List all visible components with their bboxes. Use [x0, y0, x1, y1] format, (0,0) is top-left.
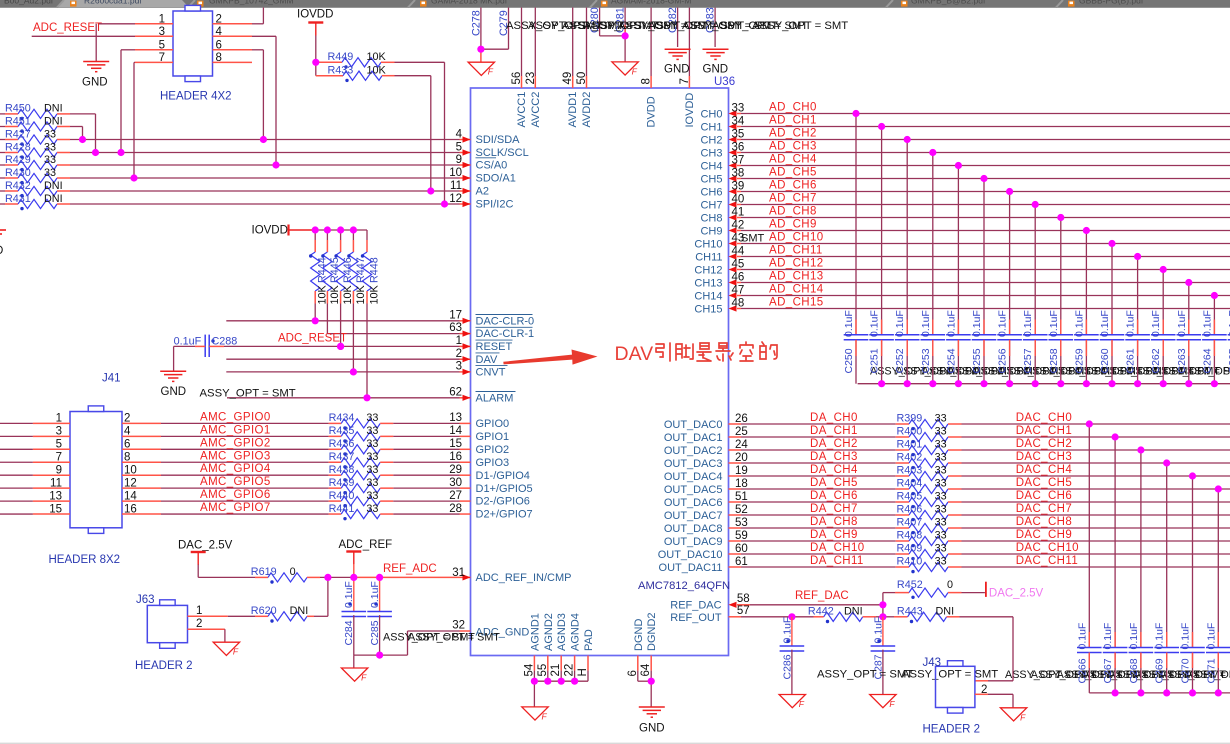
- resistor R432 DNI: [0, 190, 5, 192]
- svg-text:0.1uF: 0.1uF: [1022, 310, 1034, 337]
- svg-text:GND: GND: [664, 63, 690, 75]
- svg-text:DAC_CH0: DAC_CH0: [1016, 412, 1072, 424]
- svg-text:11: 11: [450, 180, 462, 192]
- svg-text:61: 61: [735, 556, 748, 568]
- capacitor C278 (off-top): [480, 8, 482, 50]
- svg-text:6: 6: [216, 39, 222, 51]
- svg-text:13: 13: [49, 490, 62, 502]
- ground GND (header pin1): [83, 61, 109, 63]
- junction AD_CH9/C259: [1083, 227, 1090, 234]
- svg-text:60: 60: [735, 543, 748, 555]
- header4x2 pin 3 stub: [135, 35, 173, 37]
- resistor R405 33: [896, 501, 909, 503]
- wire OUT_DAC5 row (pin 18): [729, 488, 742, 490]
- svg-text:33: 33: [935, 556, 947, 568]
- svg-text:14: 14: [124, 490, 137, 502]
- svg-text:GPIO2: GPIO2: [476, 444, 510, 456]
- svg-text:DNI: DNI: [44, 103, 63, 115]
- wire DAC_CH1 out: [962, 436, 1230, 438]
- capacitor C254 0.1uF: [957, 166, 959, 335]
- svg-text:0.1uF: 0.1uF: [1099, 310, 1111, 337]
- junction DAC_CH1/C267: [1112, 433, 1119, 440]
- svg-text:33: 33: [44, 141, 56, 153]
- svg-text:15: 15: [49, 503, 62, 515]
- wire R434 to chip pin 13: [393, 422, 459, 424]
- resistor R620 DNI: [255, 615, 268, 617]
- svg-text:GPIO3: GPIO3: [476, 457, 510, 469]
- svg-text:56: 56: [511, 72, 523, 85]
- svg-text:AMC_GPIO5: AMC_GPIO5: [200, 476, 271, 488]
- connector J41 HEADER 8X2: [70, 412, 122, 528]
- wire J41 pin 14 to R440: [122, 500, 161, 502]
- svg-text:C250: C250: [843, 348, 855, 373]
- resistor R452 0: [883, 592, 895, 594]
- resistor R449 10K: [316, 61, 342, 63]
- svg-text:HEADER 2: HEADER 2: [923, 724, 981, 736]
- svg-text:OUT_DAC2: OUT_DAC2: [664, 445, 723, 457]
- svg-text:F: F: [542, 711, 548, 721]
- svg-text:DA_CH0: DA_CH0: [810, 412, 858, 424]
- wire R448 to row: [366, 304, 368, 398]
- svg-text:CNVT: CNVT: [476, 367, 506, 379]
- svg-text:R427: R427: [5, 128, 31, 140]
- svg-text:63: 63: [449, 322, 462, 334]
- wire ALARM row (pin 62): [227, 397, 460, 399]
- svg-text:0.1uF: 0.1uF: [1076, 623, 1088, 650]
- svg-text:CH15: CH15: [694, 303, 722, 315]
- junction AD_CH4/C254: [955, 162, 962, 169]
- connector HEADER 4X2: [173, 11, 213, 76]
- svg-text:33: 33: [366, 464, 378, 476]
- svg-text:R435: R435: [329, 425, 355, 437]
- svg-text:23: 23: [525, 72, 537, 85]
- svg-text:33: 33: [935, 413, 947, 425]
- svg-text:10K: 10K: [367, 64, 387, 76]
- svg-text:CH2: CH2: [700, 134, 722, 146]
- wire AD_CH0 row (pin 33): [737, 113, 741, 115]
- wire J63 pin2 to frame ground: [188, 628, 225, 630]
- wire J41 pin 16 to R441: [122, 513, 161, 515]
- capacitor C270 0.1uF: [1192, 476, 1194, 648]
- svg-text:DAC_2.5V: DAC_2.5V: [178, 540, 233, 552]
- svg-text:R436: R436: [329, 438, 355, 450]
- wire R446 to row: [340, 304, 342, 347]
- svg-text:0.1uF: 0.1uF: [1154, 623, 1166, 650]
- svg-text:27: 27: [449, 490, 462, 502]
- svg-text:R444: R444: [317, 257, 329, 283]
- svg-text:0.1uF: 0.1uF: [1073, 310, 1085, 337]
- svg-text:59: 59: [735, 530, 748, 542]
- svg-text:2: 2: [124, 413, 130, 425]
- wire AD_CH6 row (pin 39): [737, 191, 741, 193]
- wire header pin7 down: [134, 61, 135, 63]
- resistor R429 33: [0, 164, 5, 166]
- wire R447 to row: [352, 304, 354, 372]
- header4x2 pin 8 stub: [213, 61, 253, 63]
- svg-text:12: 12: [124, 477, 137, 489]
- wire AD_CH15 row (pin 48): [737, 308, 741, 310]
- capacitor C257 0.1uF: [1034, 205, 1036, 335]
- svg-text:0.1uF: 0.1uF: [1205, 623, 1217, 650]
- svg-text:54: 54: [523, 663, 535, 676]
- svg-text:1: 1: [56, 413, 62, 425]
- header4x2 pin 7 stub: [135, 61, 173, 63]
- svg-text:AD_CH5: AD_CH5: [769, 167, 817, 179]
- wire DAC_2.5V to R619: [197, 565, 199, 578]
- wire CNVT row (pin 3): [226, 371, 459, 373]
- svg-text:CH4: CH4: [700, 160, 722, 172]
- resistor R439 33: [329, 487, 342, 489]
- wire AGND bus: [533, 671, 535, 682]
- ground GND (C283): [703, 48, 729, 50]
- svg-text:AMC_GPIO0: AMC_GPIO0: [200, 411, 271, 423]
- underline on SCLK: [476, 157, 497, 159]
- junction dots DAC cap bus: [1112, 689, 1119, 696]
- svg-text:38: 38: [732, 167, 745, 179]
- svg-text:J43: J43: [923, 657, 942, 669]
- wire R443 to J43 pin1: [960, 616, 1014, 618]
- svg-text:5: 5: [159, 39, 165, 51]
- svg-text:33: 33: [366, 477, 378, 489]
- resistor R431 DNI: [0, 203, 5, 205]
- svg-text:AD_CH12: AD_CH12: [769, 258, 824, 270]
- wire AD_CH3 row (pin 36): [737, 152, 741, 154]
- svg-text:C261: C261: [1125, 348, 1137, 373]
- svg-text:C259: C259: [1073, 348, 1085, 373]
- svg-text:AGMAM-2018-GM-M: AGMAM-2018-GM-M: [611, 0, 691, 6]
- svg-text:3: 3: [159, 26, 165, 38]
- chip top pin 56 AVCC1: [521, 8, 523, 77]
- wire ADC_RESET to header pin3: [32, 35, 135, 37]
- svg-text:3: 3: [456, 361, 462, 373]
- partial ground symbol at left edge: [0, 229, 6, 231]
- capacitor C250 0.1uF: [855, 114, 857, 335]
- junction AD_CH1/C251: [878, 123, 885, 130]
- capacitor C255 0.1uF: [983, 179, 985, 335]
- svg-text:0.1uF: 0.1uF: [843, 310, 855, 337]
- wire AD_CH9 row (pin 42): [737, 230, 741, 232]
- svg-text:SMT: SMT: [741, 233, 765, 245]
- svg-text:33: 33: [935, 452, 947, 464]
- wire R444 to row: [314, 304, 316, 321]
- svg-text:C262: C262: [1150, 348, 1162, 373]
- svg-text:R620: R620: [251, 605, 277, 617]
- svg-text:IOVDD: IOVDD: [252, 225, 288, 237]
- wire AD_CH1 row (pin 34): [737, 126, 741, 128]
- svg-text:2: 2: [456, 348, 462, 360]
- wire J41 pin 8 to R437: [122, 461, 161, 463]
- wire header pin2 up: [252, 23, 263, 25]
- wire DAC_CH2 out: [962, 449, 1230, 451]
- svg-text:37: 37: [732, 154, 745, 166]
- frame ground F (C278/C279): [468, 62, 494, 75]
- wire OUT_DAC0 row (pin 26): [729, 423, 742, 425]
- svg-text:44: 44: [732, 245, 745, 257]
- svg-text:1: 1: [196, 605, 202, 617]
- svg-text:9: 9: [456, 154, 462, 166]
- junction AD_CH8/C258: [1057, 214, 1064, 221]
- junction AD_CH0/C250: [852, 110, 859, 117]
- svg-text:DNI: DNI: [44, 193, 63, 205]
- wire RESET row (pin 1): [224, 345, 460, 347]
- svg-text:AD_CH14: AD_CH14: [769, 284, 824, 296]
- resistor R401 33: [896, 449, 909, 451]
- svg-text:GND: GND: [703, 63, 729, 75]
- svg-text:R441: R441: [329, 503, 355, 515]
- capacitor C271 0.1uF: [1217, 489, 1219, 648]
- resistor R399 33: [896, 423, 909, 425]
- wire C288 to GND: [174, 345, 195, 347]
- svg-text:0: 0: [947, 579, 953, 591]
- wire net row pin 9: [70, 164, 460, 166]
- capacitor C268 0.1uF: [1140, 450, 1142, 648]
- resistor R440 33: [329, 500, 342, 502]
- svg-text:OUT_DAC0: OUT_DAC0: [664, 419, 723, 431]
- svg-text:35: 35: [732, 128, 745, 140]
- resistor R443 DNI: [883, 616, 894, 618]
- capacitor C258 0.1uF: [1060, 218, 1062, 335]
- svg-text:33: 33: [366, 438, 378, 450]
- svg-text:AD_CH10: AD_CH10: [769, 232, 824, 244]
- svg-text:R429: R429: [5, 154, 31, 166]
- svg-text:6: 6: [627, 670, 639, 676]
- resistor R410 33: [896, 566, 909, 568]
- wire OUT_DAC3 row (pin 20): [729, 462, 742, 464]
- svg-text:26: 26: [735, 413, 748, 425]
- svg-text:48: 48: [732, 297, 745, 309]
- wire DAC_CH6 out: [962, 501, 1230, 503]
- wire R450 out: [70, 113, 96, 115]
- svg-text:DNI: DNI: [844, 606, 863, 618]
- svg-text:12: 12: [449, 193, 462, 205]
- chip bottom pin 6 DGND: [637, 656, 639, 671]
- wire DAC-CLR-0 row (pin 17): [226, 320, 459, 322]
- svg-text:DAC_CH6: DAC_CH6: [1016, 490, 1072, 502]
- capacitor C259 0.1uF: [1085, 231, 1087, 335]
- junction dots top-left: [79, 136, 86, 143]
- svg-text:C260: C260: [1099, 348, 1111, 373]
- svg-text:GND: GND: [82, 77, 108, 89]
- svg-text:4: 4: [216, 26, 223, 38]
- svg-text:AD_CH7: AD_CH7: [769, 193, 817, 205]
- svg-text:REF_DAC: REF_DAC: [670, 599, 721, 611]
- svg-text:AVCC2: AVCC2: [530, 92, 542, 128]
- svg-text:17: 17: [449, 309, 462, 321]
- svg-text:41: 41: [732, 206, 745, 218]
- svg-text:AMC7812_64QFN: AMC7812_64QFN: [638, 580, 730, 592]
- wire AD_CH12 row (pin 45): [737, 269, 741, 271]
- svg-text:GPIO0: GPIO0: [476, 418, 510, 430]
- svg-text:2: 2: [216, 13, 222, 25]
- svg-text:AGND3: AGND3: [556, 613, 568, 651]
- svg-text:33: 33: [366, 451, 378, 463]
- junction AD_CH11/C261: [1134, 253, 1141, 260]
- svg-text:CH0: CH0: [700, 108, 722, 120]
- svg-text:AGND1: AGND1: [529, 613, 541, 651]
- svg-text:R442: R442: [808, 606, 834, 618]
- junction DAC_CH0/C266: [1086, 420, 1093, 427]
- junction dots IOVDD rail: [312, 226, 319, 233]
- svg-text:D2+/GPIO7: D2+/GPIO7: [476, 509, 533, 521]
- svg-text:33: 33: [935, 465, 947, 477]
- wire AD_CH13 row (pin 46): [737, 282, 741, 284]
- svg-text:33: 33: [732, 102, 745, 114]
- svg-text:4: 4: [124, 426, 131, 438]
- svg-text:CH9: CH9: [700, 225, 722, 237]
- svg-text:CH3: CH3: [700, 147, 722, 159]
- svg-text:7: 7: [56, 451, 62, 463]
- svg-text:CH8: CH8: [700, 212, 722, 224]
- wire R435 to chip pin 14: [393, 435, 459, 437]
- frame ground F (C281): [612, 62, 638, 75]
- svg-text:8: 8: [124, 451, 130, 463]
- svg-text:AD_CH11: AD_CH11: [769, 245, 823, 257]
- power tap DAC_2.5V (right): [985, 582, 987, 597]
- chip top pin 49 AVDD1: [572, 8, 574, 77]
- svg-text:16: 16: [449, 451, 462, 463]
- wire OUT_DAC11 row (pin 61): [729, 566, 742, 568]
- svg-text:DGND2: DGND2: [646, 612, 658, 651]
- wire J63 pin1 to R620: [188, 615, 228, 617]
- svg-text:F: F: [632, 66, 638, 76]
- chip bottom pin 22 AGND4: [574, 656, 576, 671]
- svg-text:33: 33: [366, 490, 378, 502]
- svg-text:33: 33: [366, 412, 378, 424]
- svg-text:AMC_GPIO7: AMC_GPIO7: [200, 502, 271, 514]
- svg-text:OUT_DAC5: OUT_DAC5: [664, 484, 723, 496]
- resistor R409 33: [896, 553, 909, 555]
- svg-text:DA_CH5: DA_CH5: [810, 477, 858, 489]
- svg-text:R430: R430: [5, 167, 31, 179]
- svg-text:R404: R404: [897, 478, 923, 490]
- svg-text:R449: R449: [328, 51, 354, 63]
- svg-text:R405: R405: [897, 491, 923, 503]
- svg-text:0.1uF: 0.1uF: [920, 310, 932, 337]
- svg-text:0.1uF: 0.1uF: [945, 310, 957, 337]
- svg-text:SPI/I2C: SPI/I2C: [476, 199, 514, 211]
- junction dots AGND bus: [531, 678, 538, 685]
- svg-text:DVDD: DVDD: [646, 96, 658, 127]
- svg-text:21: 21: [550, 664, 562, 677]
- svg-text:AD_CH6: AD_CH6: [769, 180, 817, 192]
- capacitor C287 0.1uF: [882, 617, 884, 646]
- svg-text:F: F: [488, 67, 494, 77]
- wire AD_CH2 row (pin 35): [737, 139, 741, 141]
- svg-text:4: 4: [456, 128, 463, 140]
- svg-text:C253: C253: [920, 348, 932, 373]
- chip top pin 7 IOVDD: [688, 8, 690, 77]
- wire AD_CH7 row (pin 40): [737, 204, 741, 206]
- svg-text:CH10: CH10: [694, 238, 722, 250]
- svg-text:AMC_GPIO4: AMC_GPIO4: [200, 463, 271, 475]
- svg-text:7: 7: [159, 52, 165, 64]
- resistor R438 33: [329, 474, 342, 476]
- capacitor C285 0.1uF: [379, 577, 381, 611]
- chip bottom pin 55 AGND2: [547, 656, 549, 671]
- svg-text:10: 10: [124, 464, 137, 476]
- svg-text:10K: 10K: [342, 284, 354, 304]
- svg-text:28: 28: [449, 503, 462, 515]
- resistor R451 DNI: [0, 126, 5, 128]
- svg-text:33: 33: [935, 517, 947, 529]
- svg-text:ASSY_OPT = SMT: ASSY_OPT = SMT: [817, 669, 913, 681]
- svg-text:ASSY_OPT = SMT: ASSY_OPT = SMT: [752, 20, 848, 32]
- resistor R400 33: [896, 436, 909, 438]
- svg-text:DAC-CLR-0: DAC-CLR-0: [476, 315, 535, 327]
- wire J41 pin 4 to R435: [122, 435, 161, 437]
- svg-text:OUT_DAC11: OUT_DAC11: [659, 562, 723, 574]
- svg-text:J41: J41: [102, 373, 121, 385]
- svg-text:C268: C268: [1128, 658, 1140, 683]
- svg-text:R451: R451: [5, 115, 31, 127]
- svg-text:0.1uF: 0.1uF: [174, 335, 202, 347]
- resistor R447 10K (pull-up): [352, 230, 354, 240]
- svg-text:C263: C263: [1176, 348, 1188, 373]
- svg-text:29: 29: [449, 464, 462, 476]
- svg-text:DAC_CH8: DAC_CH8: [1016, 516, 1072, 528]
- svg-text:33: 33: [935, 439, 947, 451]
- svg-text:R619: R619: [251, 566, 277, 578]
- header4x2 pin 4 stub: [213, 35, 253, 37]
- junction C278/C279: [477, 46, 484, 53]
- junction AD_CH6/C256: [1006, 188, 1013, 195]
- svg-text:R439: R439: [329, 477, 355, 489]
- wire J41 pin 10 to R438: [122, 474, 161, 476]
- header4x2 pin 5 stub: [135, 49, 173, 51]
- chip bottom pin 64 DGND2: [650, 656, 652, 671]
- svg-text:C255: C255: [971, 348, 983, 373]
- wire caps to frame ground + pin32: [354, 654, 408, 656]
- svg-text:ADC_RESET: ADC_RESET: [33, 22, 102, 34]
- chip top pin 8 DVDD: [650, 8, 652, 77]
- svg-text:57: 57: [737, 605, 750, 617]
- svg-text:OUT_DAC1: OUT_DAC1: [664, 432, 723, 444]
- svg-text:AVDD2: AVDD2: [581, 92, 593, 128]
- capacitor C262 0.1uF: [1162, 270, 1164, 335]
- svg-text:DA_CH6: DA_CH6: [810, 490, 858, 502]
- wire R436 to chip pin 15: [393, 448, 459, 450]
- junction AD_CH3/C253: [929, 149, 936, 156]
- svg-text:33: 33: [44, 128, 56, 140]
- wire J41 pin 2 to R434: [122, 422, 161, 424]
- svg-text:33: 33: [935, 530, 947, 542]
- wire IOVDD rail: [313, 229, 367, 231]
- wire R439 to chip pin 30: [393, 487, 459, 489]
- wire R449 to pin12 row: [395, 61, 445, 63]
- svg-text:39: 39: [732, 180, 745, 192]
- wire OUT_DAC4 row (pin 19): [729, 475, 742, 477]
- svg-text:3: 3: [56, 426, 62, 438]
- resistor R442 DNI: [814, 616, 824, 618]
- resistor R403 33: [896, 475, 909, 477]
- svg-text:GND: GND: [639, 723, 665, 735]
- wire R438 to chip pin 29: [393, 474, 459, 476]
- resistor R408 33: [896, 540, 909, 542]
- header4x2 pin 1 stub: [135, 23, 173, 25]
- svg-text:D1+/GPIO5: D1+/GPIO5: [476, 483, 533, 495]
- junction AD_CH13/C263: [1185, 279, 1192, 286]
- svg-text:AD_CH4: AD_CH4: [769, 154, 817, 166]
- chip top pin 50 AVDD2: [586, 8, 588, 77]
- junction AD_CH7/C257: [1032, 201, 1039, 208]
- svg-text:C270: C270: [1180, 658, 1192, 683]
- wire OUT_DAC8 row (pin 53): [729, 527, 742, 529]
- svg-text:R410: R410: [897, 556, 923, 568]
- svg-text:33: 33: [366, 503, 378, 515]
- wire AMC_GPIO5 left: [0, 487, 33, 489]
- wire R451 out: [70, 126, 83, 128]
- capacitor C283 (off-top): [714, 8, 716, 48]
